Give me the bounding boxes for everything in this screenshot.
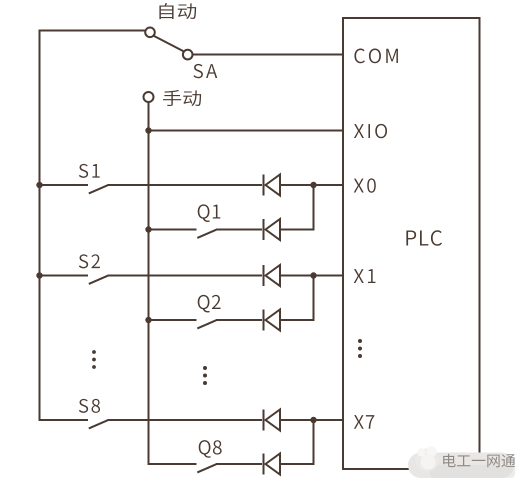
wire diode to node X xyxy=(280,184,314,186)
node X junction xyxy=(310,272,316,278)
wire node X7 to PLC pin xyxy=(314,419,345,421)
label PLC xyxy=(406,230,416,245)
pin label X0 xyxy=(354,179,364,193)
wire riser to node X xyxy=(313,276,315,322)
pin label X7 xyxy=(354,415,364,429)
diode V1 triangle xyxy=(266,219,281,240)
label Q1 xyxy=(198,204,210,222)
ellipsis middle column xyxy=(203,366,207,370)
node Q1 junction on middle bus xyxy=(145,226,151,232)
switch Q2 left wire xyxy=(149,319,197,321)
wire top horizontal to SA xyxy=(39,30,146,32)
switch Q2 blade xyxy=(197,320,216,328)
wire SA to COM xyxy=(193,54,345,56)
pin label XIO xyxy=(354,124,364,138)
label S2 xyxy=(79,254,88,268)
switch S1 left wire xyxy=(40,184,89,186)
node S1 junction on left bus xyxy=(36,182,42,188)
pin label COM xyxy=(354,49,364,64)
switch S1 blade xyxy=(89,185,108,193)
switch S8 left wire xyxy=(39,419,89,421)
diode V1 cathode bar xyxy=(263,219,265,240)
watermark logo text 电工一网通 xyxy=(443,454,455,467)
switch Q1 blade xyxy=(197,230,216,238)
diode V15 triangle xyxy=(266,410,281,431)
diode V16 triangle xyxy=(266,454,281,475)
label Q2 xyxy=(198,295,210,313)
diode V1 triangle xyxy=(266,175,281,196)
label S1 xyxy=(79,164,88,178)
wire diode to riser Q8 xyxy=(280,463,315,465)
node X7 junction xyxy=(310,417,316,423)
switch Q8 left wire xyxy=(148,463,197,465)
switch SA blade xyxy=(154,36,185,52)
switch S2 left wire xyxy=(40,275,89,277)
wire diode to riser xyxy=(280,319,315,321)
wire S8 to diode xyxy=(108,419,263,421)
wire middle bus vertical xyxy=(148,102,150,464)
wire Q8 to diode xyxy=(216,463,262,465)
switch Q1 left wire xyxy=(149,229,197,231)
diode V2 cathode bar xyxy=(263,310,265,331)
ellipsis left bus column xyxy=(92,350,96,354)
node S2 junction on left bus xyxy=(36,272,42,278)
label Q8 xyxy=(199,440,211,458)
wire S1 to diode xyxy=(108,184,263,186)
terminal 手动 circle xyxy=(144,92,154,102)
diode V2 cathode bar xyxy=(263,265,265,286)
pin label X1 xyxy=(354,269,364,283)
wire riser Q8 to node X7 xyxy=(313,421,315,464)
wire riser to node X xyxy=(313,185,315,231)
label 自动 (auto) xyxy=(159,3,173,19)
node XIO junction xyxy=(145,127,151,133)
label S8 xyxy=(79,399,88,413)
diode V1 cathode bar xyxy=(263,175,265,196)
wire node to PLC pin xyxy=(314,184,345,186)
wire diode to node X7 xyxy=(280,419,314,421)
wire XIO xyxy=(149,130,345,132)
wire Q1 to diode xyxy=(216,229,262,231)
switch S8 blade xyxy=(89,420,108,428)
node Q2 junction on middle bus xyxy=(145,317,151,323)
diode V16 cathode bar xyxy=(263,454,265,475)
switch SA throw terminal xyxy=(183,50,193,60)
node X junction xyxy=(310,182,316,188)
wire S2 to diode xyxy=(108,275,263,277)
wire diode to riser xyxy=(280,229,315,231)
watermark background blob xyxy=(408,453,514,479)
PLC box U1 xyxy=(343,18,480,469)
switch S2 blade xyxy=(89,276,108,284)
label SA xyxy=(193,64,202,78)
wire node to PLC pin xyxy=(314,275,345,277)
wire left bus vertical xyxy=(39,30,41,421)
diode V2 triangle xyxy=(266,265,281,286)
switch SA pivot terminal xyxy=(145,28,155,38)
wire diode to node X xyxy=(280,275,314,277)
switch Q8 blade xyxy=(197,464,216,472)
label 手动 (manual) xyxy=(163,90,181,106)
ellipsis inside PLC xyxy=(358,339,362,343)
wire Q2 to diode xyxy=(216,319,262,321)
diode V2 triangle xyxy=(266,310,281,331)
diode V15 cathode bar xyxy=(263,410,265,431)
